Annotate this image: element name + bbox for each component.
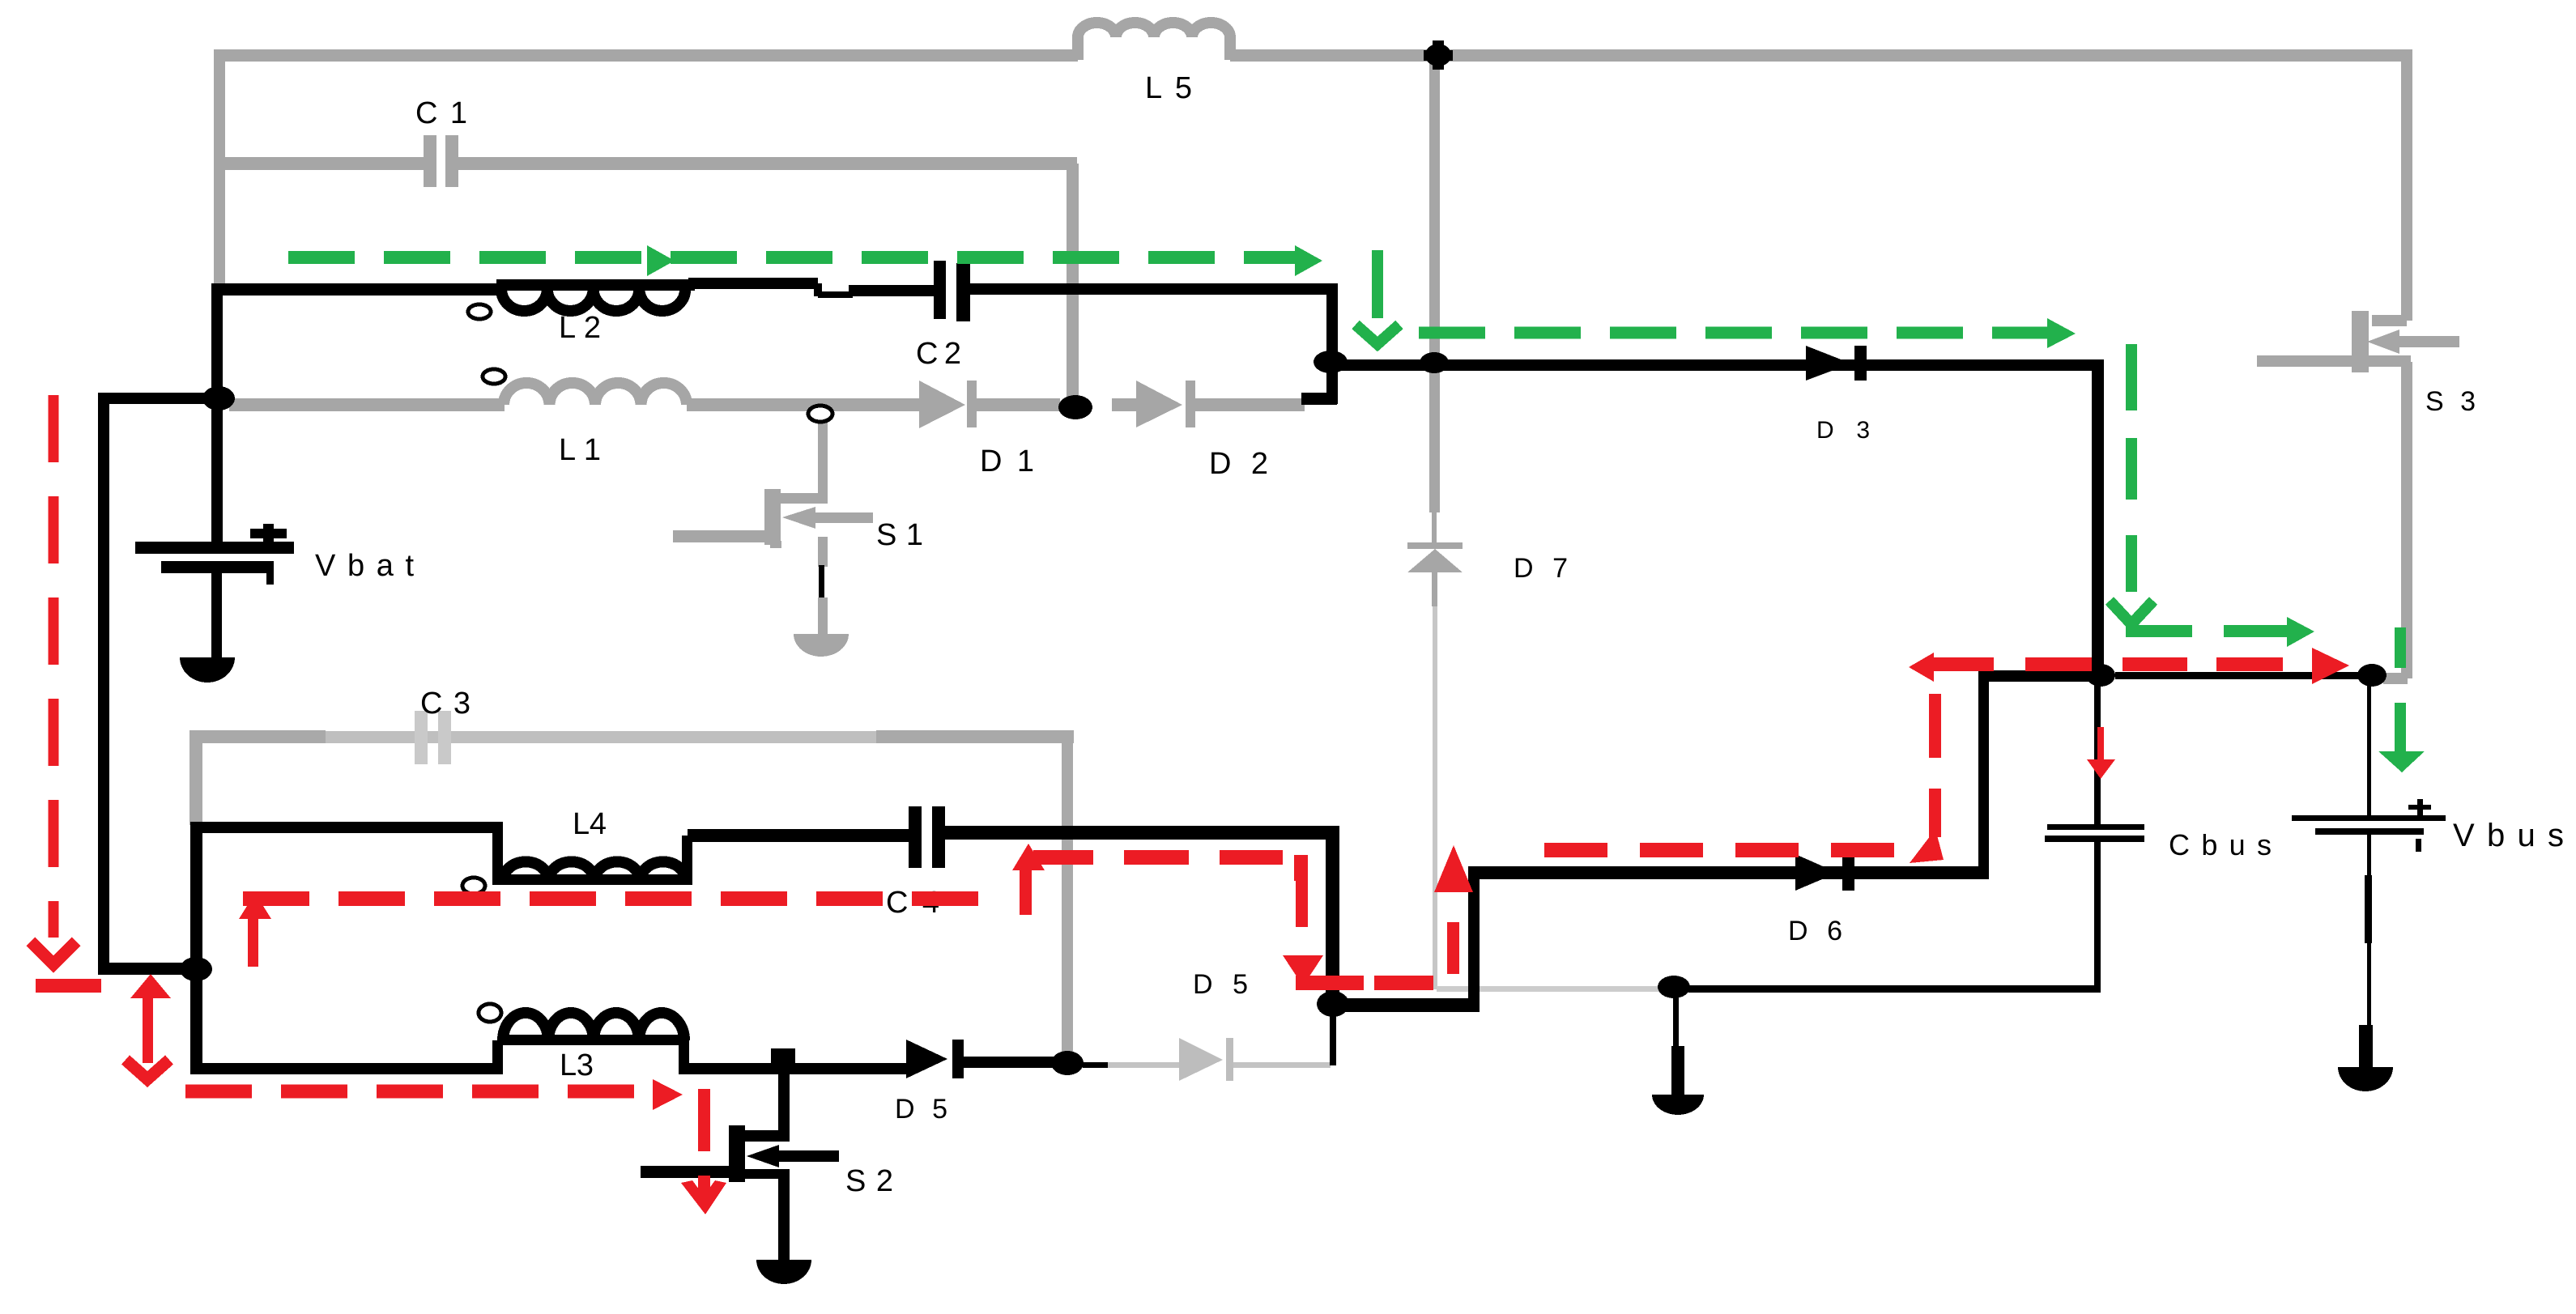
RED-PATH xyxy=(31,395,2349,1214)
wire left outer loop xyxy=(98,393,219,404)
wire D6 row xyxy=(1474,866,1984,879)
node return-ground xyxy=(1658,976,1690,998)
wire red C4 row dashed xyxy=(1124,850,1189,865)
arrow red L4 row up xyxy=(239,893,271,919)
svg-text:Vbus: Vbus xyxy=(2453,818,2564,853)
coupling dot L4 xyxy=(462,878,485,894)
wire L4 to C4 xyxy=(688,829,910,842)
svg-text:Cbus: Cbus xyxy=(2169,828,2272,861)
diode D2 xyxy=(1136,381,1182,427)
wire right drop to output node xyxy=(2092,359,2104,676)
node output left xyxy=(2086,664,2115,687)
wire C4 to corner xyxy=(945,826,1339,840)
wire C4 corner drop xyxy=(1326,832,1339,1001)
capacitor C3 xyxy=(415,711,428,764)
arrow red into Cbus xyxy=(2097,727,2104,762)
ground mid column xyxy=(1652,992,1704,1115)
wire red right vertical dashed xyxy=(1929,694,1941,758)
wire D8 row xyxy=(1336,359,2097,371)
transistor S2 xyxy=(641,1063,839,1260)
node battery branch xyxy=(202,386,235,410)
transistor S3 xyxy=(2257,55,2459,684)
node D1-D2 xyxy=(1058,395,1092,419)
node C2 corner xyxy=(1314,351,1348,373)
battery Vbus xyxy=(2292,676,2446,1073)
GREEN-PATH xyxy=(288,245,2425,772)
node marker S1 drain circle xyxy=(808,406,832,422)
node D7 top crossing xyxy=(1420,352,1449,373)
svg-text:S1: S1 xyxy=(876,518,923,552)
wire red corner down at D5 xyxy=(1294,855,1308,881)
wire left gray vertical (top bus down to L2 corner) xyxy=(214,49,225,288)
wire red output row right xyxy=(2123,657,2187,671)
wire L1 row xyxy=(229,398,505,411)
wire red left vertical dashed xyxy=(49,395,59,938)
inductor L1 xyxy=(504,383,687,405)
svg-text:L3: L3 xyxy=(560,1048,594,1082)
diode D3 (bottom) xyxy=(906,1040,947,1078)
wire green right vertical dashed xyxy=(2126,344,2137,410)
wire green top dashed xyxy=(288,251,1296,264)
diode D5 xyxy=(1108,1038,1331,1081)
wire L1 to S1 node xyxy=(687,398,919,411)
svg-text:D6: D6 xyxy=(1788,916,1842,946)
node D3-D5 xyxy=(1051,1051,1084,1075)
wire red S2 drop xyxy=(698,1089,710,1151)
node C4 corner xyxy=(1317,991,1349,1017)
wire green mid dashed xyxy=(1419,327,2049,339)
wire L3 to D3 xyxy=(684,1063,909,1074)
wire riser D6 row to node row xyxy=(1978,670,1989,879)
diode D1 xyxy=(919,381,965,428)
wire red D6 row dashed xyxy=(1544,843,1896,857)
wire thin node row xyxy=(2115,672,2358,679)
node S2 tap xyxy=(771,1048,795,1066)
coupling dot L3 xyxy=(479,1004,501,1022)
coupling dot L2 xyxy=(468,304,491,319)
diode D6 xyxy=(1795,854,1837,891)
wire green to output node xyxy=(2126,625,2192,637)
wire top gray bus right segment xyxy=(1230,49,2412,62)
inductor L5 xyxy=(1078,23,1230,60)
GRAY-WIRES xyxy=(189,23,2459,1081)
svg-text:S3: S3 xyxy=(2425,386,2476,417)
svg-text:L2: L2 xyxy=(559,311,601,345)
wire red dash over C4 label xyxy=(918,891,978,906)
wire light-gray return from D7 bottom xyxy=(1437,986,1662,992)
svg-text:D3: D3 xyxy=(1816,417,1870,444)
inductor L4 xyxy=(503,861,686,880)
wire red L4 row dashed xyxy=(243,891,981,906)
diode D7 column xyxy=(1407,62,1463,989)
node output right xyxy=(2357,664,2387,687)
wire mid-left column (L4 corner to L3 corner) xyxy=(190,822,202,1069)
svg-text:D5: D5 xyxy=(1193,969,1248,1000)
wire thin drop to D5 line xyxy=(1330,1001,1336,1065)
transistor S1 xyxy=(673,411,873,657)
wire D2 out xyxy=(1195,398,1305,411)
wire left main vertical (L2 corner to Vbat) xyxy=(211,283,223,543)
wire C1 row left xyxy=(214,157,425,170)
svg-text:D1: D1 xyxy=(980,444,1034,478)
wire red bottom dashed row xyxy=(185,1085,652,1099)
BLACK-WIRES xyxy=(98,261,2446,1284)
inductor L3 xyxy=(503,1013,684,1040)
diode D8 (D3 label) xyxy=(1806,346,1851,381)
wire bottom return row xyxy=(1688,985,2101,993)
arrow red riser up xyxy=(1447,922,1459,974)
wire C3 left leg xyxy=(189,730,202,825)
arrow red junction up xyxy=(130,974,171,998)
coupling dot L1 xyxy=(483,369,505,384)
wire riser up to D6 row xyxy=(1468,866,1480,1012)
wire red output row left arrow xyxy=(1909,653,1934,682)
svg-text:D2: D2 xyxy=(1209,447,1268,481)
wire L2 row xyxy=(211,283,503,296)
svg-text:D7: D7 xyxy=(1514,553,1568,584)
svg-text:C1: C1 xyxy=(415,96,467,130)
capacitor C1 xyxy=(424,135,436,187)
ground Vbus xyxy=(2338,1067,2393,1091)
svg-text:L1: L1 xyxy=(559,433,601,467)
battery Vbat xyxy=(135,524,294,660)
wire L4 row top xyxy=(190,822,498,833)
wire top gray bus left segment xyxy=(214,49,1078,62)
svg-text:L4: L4 xyxy=(573,807,607,841)
wire D1 to node xyxy=(977,398,1060,411)
svg-text:L5: L5 xyxy=(1145,71,1192,105)
node bottom-left branch xyxy=(180,957,212,981)
arrow red C4 jog up xyxy=(1020,868,1032,915)
wire C3 row xyxy=(196,730,326,743)
wire node to D2 xyxy=(1112,398,1136,411)
capacitor C4 xyxy=(909,806,922,868)
inductor L2 xyxy=(501,289,685,311)
wire green corner vertical xyxy=(1372,250,1383,318)
wire red bottom-left dash xyxy=(36,979,101,993)
wire C3 right leg down xyxy=(1062,737,1073,1065)
svg-text:Vbat: Vbat xyxy=(315,549,414,583)
wire C1 right leg down to D1-D2 node xyxy=(1067,164,1079,407)
svg-text:S2: S2 xyxy=(845,1164,893,1198)
wire L3 row bottom xyxy=(190,1063,498,1074)
ground Vbat xyxy=(180,657,235,683)
node L5 junction xyxy=(1425,44,1451,66)
wire green down to Vbus xyxy=(2395,627,2406,668)
wire C1 row right xyxy=(458,157,1077,170)
svg-text:D5: D5 xyxy=(895,1094,947,1125)
svg-text:C2: C2 xyxy=(916,337,961,371)
wire thin after node xyxy=(1083,1062,1108,1068)
capacitor C2 xyxy=(934,261,946,319)
wire D3 to node xyxy=(964,1057,1067,1068)
wire L2 to C2 xyxy=(688,278,818,289)
wire C2 corner drop xyxy=(1326,289,1338,370)
wire node to riser row xyxy=(1333,998,1480,1012)
wire D2 output black jog xyxy=(1301,393,1337,405)
wire C2 to corner xyxy=(970,283,1338,295)
capacitor Cbus xyxy=(2045,676,2144,988)
ground S2 xyxy=(756,1260,811,1284)
